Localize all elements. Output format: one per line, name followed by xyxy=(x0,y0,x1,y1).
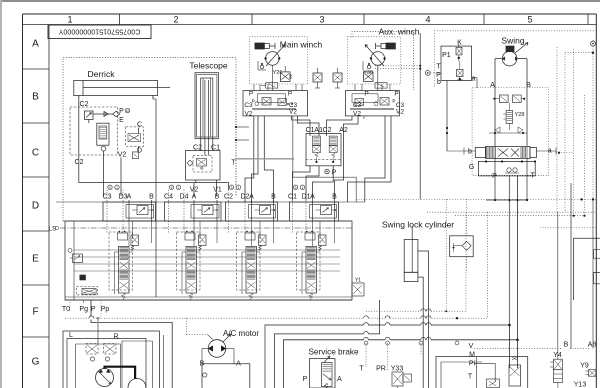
svg-text:V2: V2 xyxy=(245,110,253,117)
svg-text:Swing: Swing xyxy=(501,36,524,46)
pump main circle xyxy=(96,369,114,387)
label Telescope xyxy=(189,61,228,71)
mw tank gray line xyxy=(236,116,356,202)
svg-text:D4: D4 xyxy=(180,194,189,201)
svg-text:C2: C2 xyxy=(323,127,332,134)
svg-text:A: A xyxy=(310,194,315,201)
label B br xyxy=(564,342,569,349)
winch shuttle valve box xyxy=(306,134,341,166)
svg-text:P1: P1 xyxy=(442,52,451,59)
port risers C1 xyxy=(293,190,335,246)
svg-text:T: T xyxy=(530,173,535,180)
aux winch brake cylinder xyxy=(376,43,396,49)
top interconnect dots xyxy=(235,126,249,141)
svg-text:T: T xyxy=(436,63,441,70)
svg-text:C2: C2 xyxy=(224,194,233,201)
pump solenoid left xyxy=(86,344,98,362)
pump bold line xyxy=(105,367,136,379)
label P pump xyxy=(91,300,172,388)
label C2 derrick top xyxy=(80,101,89,108)
label A8 br xyxy=(588,342,597,349)
svg-text:C3: C3 xyxy=(244,102,253,109)
svg-text:Y1: Y1 xyxy=(355,278,361,284)
title block box xyxy=(48,25,151,39)
ac motor circle xyxy=(208,334,231,357)
label V2 derrick xyxy=(118,152,127,159)
label a p1 xyxy=(472,76,476,83)
svg-text:C: C xyxy=(32,148,39,159)
label Swing lock cylinder xyxy=(382,219,454,229)
label P1 xyxy=(442,52,451,59)
circled ports C2/D2 xyxy=(229,185,240,190)
label a swing xyxy=(537,148,574,155)
label Derrick xyxy=(88,69,116,79)
row divider xyxy=(23,336,50,338)
label A ac xyxy=(236,361,241,368)
svg-text:V1: V1 xyxy=(213,186,222,193)
Y33 valve xyxy=(392,372,412,388)
manifold unloader xyxy=(76,275,97,295)
manifold Y1 valve xyxy=(352,278,364,297)
label b swing xyxy=(464,148,475,156)
label T p1 xyxy=(436,63,441,70)
label P sb xyxy=(303,376,308,383)
port relief C3 xyxy=(132,206,153,215)
svg-text:9: 9 xyxy=(231,186,233,190)
svg-text:V2: V2 xyxy=(396,108,404,115)
pilot port symbol P xyxy=(325,169,337,176)
label P mw-right xyxy=(288,91,292,98)
label V2 mw-left xyxy=(245,110,253,117)
svg-text:T: T xyxy=(359,366,364,373)
svg-text:B: B xyxy=(149,194,154,201)
ac motor box xyxy=(202,349,250,388)
label A C2 xyxy=(249,194,254,201)
label V2 col xyxy=(190,186,199,193)
label C3 mw-left xyxy=(244,102,253,109)
svg-text:9: 9 xyxy=(171,186,173,190)
label A1 riser xyxy=(314,127,323,134)
label Aux. winch xyxy=(378,26,419,36)
svg-text:P: P xyxy=(364,91,368,98)
aux winch check valves xyxy=(363,61,371,70)
valve section 2 xyxy=(177,221,207,300)
mid horizontal k xyxy=(447,150,464,151)
svg-text:C2: C2 xyxy=(80,101,89,108)
valve section 1 xyxy=(109,221,139,300)
port relief C1 xyxy=(316,206,337,215)
svg-text:B: B xyxy=(32,92,39,103)
label PR sb xyxy=(376,366,386,373)
svg-text:B: B xyxy=(564,342,569,349)
br small glyph xyxy=(487,379,500,388)
valve section 4 xyxy=(297,221,327,300)
label C3 mw-right xyxy=(289,102,298,109)
svg-text:A: A xyxy=(236,361,241,368)
svg-text:B: B xyxy=(332,194,337,201)
label V2 aw-right xyxy=(396,108,404,115)
right dashed v3 xyxy=(583,95,585,217)
derrick line C2 down xyxy=(79,96,229,191)
svg-text:10: 10 xyxy=(126,109,130,113)
column dividers xyxy=(120,14,589,25)
label Swing xyxy=(501,36,524,46)
aux winch control box xyxy=(345,91,399,116)
K valve xyxy=(456,44,462,61)
shuttle outlet lines xyxy=(293,150,344,200)
label Y33 sb xyxy=(391,366,404,373)
derrick check to P xyxy=(93,111,120,117)
row divider xyxy=(23,284,50,286)
svg-text:A: A xyxy=(127,194,132,201)
swing T return line xyxy=(284,176,519,388)
label C3 aw-right xyxy=(396,102,405,109)
svg-text:Pi: Pi xyxy=(469,361,476,368)
label Pi br xyxy=(469,361,476,368)
svg-text:1: 1 xyxy=(238,186,240,190)
row letter D xyxy=(32,201,39,212)
svg-text:Y30: Y30 xyxy=(363,70,373,76)
svg-text:G: G xyxy=(32,357,40,368)
br valve xyxy=(509,357,521,386)
main winch check valves xyxy=(258,61,266,70)
ac motor dotted feed xyxy=(187,318,214,339)
svg-text:Aux. winch: Aux. winch xyxy=(378,26,419,36)
label G xyxy=(469,164,474,171)
label Service brake xyxy=(308,347,359,356)
swing outer dotted enclosure xyxy=(434,31,596,217)
svg-text:V2: V2 xyxy=(289,108,297,115)
main winch brake cylinder xyxy=(255,43,275,49)
svg-text:C4: C4 xyxy=(164,194,173,201)
label B C3 xyxy=(149,194,154,201)
svg-text:C007557015100000000Y: C007557015100000000Y xyxy=(58,28,140,37)
label V2 mw-right xyxy=(289,108,297,115)
svg-text:Y9: Y9 xyxy=(580,363,589,370)
row divider xyxy=(23,230,50,232)
svg-text:Telescope: Telescope xyxy=(189,61,228,71)
pump inner right box xyxy=(122,335,164,388)
column number 4 xyxy=(425,15,430,25)
label T sb xyxy=(359,366,364,373)
column number 3 xyxy=(319,15,324,25)
label C xyxy=(137,122,142,129)
label b p1 xyxy=(437,79,441,86)
svg-text:1: 1 xyxy=(67,15,72,25)
derrick aux dashed box xyxy=(126,127,144,147)
label P p1 xyxy=(436,72,441,79)
label A sb xyxy=(337,376,342,383)
port box C4 xyxy=(165,202,222,221)
label Y30 xyxy=(363,66,378,81)
manifold T return elbow xyxy=(274,300,379,388)
mw spool right xyxy=(278,99,293,106)
pilot solenoid valve right xyxy=(333,68,342,88)
pilot check box xyxy=(450,199,474,272)
svg-text:G: G xyxy=(469,164,474,171)
right bracket box a xyxy=(594,250,600,259)
manifold top line xyxy=(63,220,352,222)
column number 1 xyxy=(67,15,72,25)
label Pp xyxy=(101,300,110,318)
br unit box xyxy=(436,357,528,388)
svg-text:b: b xyxy=(468,149,472,156)
aux winch counterbalance xyxy=(375,83,387,88)
right bus dotted b xyxy=(455,215,585,217)
BA8 dash line xyxy=(474,348,590,350)
sb dashed drops xyxy=(364,341,459,370)
svg-text:M: M xyxy=(469,352,475,359)
main winch control box xyxy=(243,91,308,116)
svg-text:B: B xyxy=(271,194,276,201)
circled ports C4/D4 xyxy=(169,185,180,190)
circled ports C3/D3 xyxy=(108,185,119,190)
label C4 xyxy=(164,194,173,201)
manifold compensator xyxy=(68,249,83,263)
label M br xyxy=(469,352,475,359)
port risers C4 xyxy=(169,190,218,246)
svg-text:C: C xyxy=(137,122,142,129)
label Y9 xyxy=(580,363,589,370)
swing bottom joins xyxy=(486,158,528,201)
svg-text:A: A xyxy=(337,376,342,383)
derrick-telescope dotted enclosure xyxy=(63,58,236,222)
svg-text:D: D xyxy=(32,201,39,212)
label B swing xyxy=(526,82,531,89)
derrick cylinder xyxy=(74,81,170,100)
aw spool right xyxy=(374,98,395,106)
derrick line down a xyxy=(103,151,105,196)
svg-text:3: 3 xyxy=(319,15,324,25)
svg-text:Y28: Y28 xyxy=(515,112,525,118)
svg-text:C3: C3 xyxy=(103,194,112,201)
row letter E xyxy=(32,254,39,265)
label V1 col xyxy=(213,186,222,193)
pump second circle xyxy=(128,379,146,388)
svg-text:Pp: Pp xyxy=(101,306,110,313)
label B C4 xyxy=(215,194,220,201)
right bracket box b xyxy=(594,272,600,283)
label A2 riser xyxy=(339,127,348,134)
aux winch motor xyxy=(365,45,386,91)
swing check row xyxy=(489,127,527,134)
aw spool left xyxy=(355,99,364,106)
label Y13 xyxy=(574,382,587,388)
service brake box xyxy=(310,359,336,388)
label A/C motor xyxy=(223,329,259,338)
label C2 telescope xyxy=(193,144,202,151)
label P aw-left xyxy=(364,91,368,98)
pump solenoid right xyxy=(104,344,116,362)
wire crossover hops xyxy=(89,309,431,341)
br vertical feeds xyxy=(558,183,593,359)
svg-text:F: F xyxy=(32,307,38,318)
label T mid xyxy=(231,111,236,196)
port risers C2 xyxy=(229,190,274,246)
pilot dotted pair to P1 xyxy=(375,66,420,69)
label T0 xyxy=(62,302,70,313)
svg-text:1: 1 xyxy=(178,186,180,190)
row divider xyxy=(23,176,50,178)
dotted corner a xyxy=(366,212,466,311)
swing relief pair xyxy=(493,95,525,103)
main winch counterbalance xyxy=(261,83,278,88)
label Y26 xyxy=(273,66,292,81)
svg-text:Swing lock cylinder: Swing lock cylinder xyxy=(382,219,454,229)
derrick drain glyph xyxy=(132,152,138,159)
port risers C3 xyxy=(107,190,152,246)
P1 box xyxy=(441,46,472,80)
telescope valve box xyxy=(186,151,221,181)
svg-text:T: T xyxy=(468,374,473,381)
shuttle spool left xyxy=(313,136,321,162)
port symbol p1 xyxy=(425,71,430,76)
port relief C2 xyxy=(255,206,276,215)
svg-text:P: P xyxy=(91,306,96,313)
swing Y28 valve xyxy=(503,103,512,130)
svg-text:C1: C1 xyxy=(306,127,315,134)
row letter G xyxy=(32,357,40,368)
svg-text:L: L xyxy=(69,332,73,339)
svg-text:B: B xyxy=(215,194,220,201)
right dotted bus low xyxy=(540,227,596,229)
svg-text:T: T xyxy=(231,160,236,167)
dotted bus main xyxy=(65,212,488,319)
label D4 xyxy=(180,194,189,201)
svg-text:C3: C3 xyxy=(353,102,362,109)
aux winch outer dotted enclosure xyxy=(352,32,414,91)
derrick line down b xyxy=(120,158,122,197)
label L pump xyxy=(69,332,73,339)
shuttle spool right xyxy=(329,136,337,162)
pilot bus line xyxy=(56,201,365,203)
svg-text:Y33: Y33 xyxy=(391,366,404,373)
svg-text:E: E xyxy=(32,254,39,265)
svg-text:A2: A2 xyxy=(339,127,348,134)
winch feed verticals xyxy=(254,84,390,91)
dotted drop 446 xyxy=(445,199,447,312)
derrick rod port line xyxy=(153,96,156,298)
svg-text:K: K xyxy=(457,40,462,47)
label B C1 xyxy=(332,194,337,201)
label D xyxy=(137,148,142,155)
right bus dots xyxy=(580,198,594,200)
svg-text:A: A xyxy=(192,194,197,201)
Y4 valve xyxy=(550,359,562,388)
svg-text:D: D xyxy=(137,148,142,155)
pump gray feed xyxy=(97,317,100,344)
aux winch dotted box xyxy=(348,37,401,84)
label A C1 xyxy=(310,194,315,201)
svg-text:A: A xyxy=(32,39,39,50)
aw drop lines xyxy=(327,116,392,202)
label T swing xyxy=(530,173,535,180)
derrick pilot valve xyxy=(85,111,94,123)
svg-text:A: A xyxy=(490,82,495,89)
svg-text:5: 5 xyxy=(527,15,532,25)
port relief C4 xyxy=(197,206,218,215)
circled ports C1/D1 xyxy=(293,185,304,190)
svg-text:P: P xyxy=(303,376,308,383)
svg-text:A8: A8 xyxy=(588,342,597,349)
right dash h xyxy=(565,52,593,54)
swing lock port line xyxy=(418,277,423,388)
svg-text:2: 2 xyxy=(173,15,178,25)
long v aux right xyxy=(419,33,421,199)
port box C3 xyxy=(103,202,156,221)
port symbol top right xyxy=(591,40,596,46)
main winch motor xyxy=(264,45,285,91)
row letter F xyxy=(32,307,38,318)
mw drop lines xyxy=(245,116,319,202)
svg-text:Y26: Y26 xyxy=(273,70,283,76)
swing block dotted box xyxy=(472,88,549,176)
svg-text:V: V xyxy=(469,343,474,350)
valve section 3 xyxy=(237,221,267,300)
right corner box xyxy=(574,238,600,300)
pump unit outer box xyxy=(63,331,159,388)
svg-text:B: B xyxy=(526,82,531,89)
label C2 derrick bottom xyxy=(75,159,84,166)
label A C3 xyxy=(127,194,132,201)
svg-text:V2: V2 xyxy=(190,186,199,193)
port P label xyxy=(119,108,130,115)
row letter C xyxy=(32,148,39,159)
P1 inner valve xyxy=(457,61,464,80)
telescope cylinder xyxy=(195,73,219,156)
svg-text:E: E xyxy=(119,117,124,124)
svg-text:R: R xyxy=(113,333,118,340)
mw spool left xyxy=(253,98,272,106)
label Main winch xyxy=(280,40,323,50)
row divider xyxy=(23,68,50,70)
svg-text:V2: V2 xyxy=(118,152,127,159)
row letter B xyxy=(32,92,39,103)
label A C4 xyxy=(192,194,197,201)
svg-text:P: P xyxy=(288,91,292,98)
label C2 xyxy=(224,194,233,201)
swing shuttle xyxy=(505,168,519,173)
label B ac xyxy=(200,361,205,368)
svg-text:PR: PR xyxy=(376,366,386,373)
svg-text:Pg: Pg xyxy=(79,306,88,313)
svg-text:9: 9 xyxy=(295,186,297,190)
row letter A xyxy=(32,39,39,50)
telescope line V1 xyxy=(215,180,217,196)
svg-text:P: P xyxy=(119,108,124,115)
p1 pilot dotted line xyxy=(430,72,441,74)
label P mw-left xyxy=(249,91,253,98)
label V2 aw-left xyxy=(353,110,361,117)
column number 5 xyxy=(527,15,532,25)
right dashed v4 xyxy=(592,46,594,199)
swing motor lines xyxy=(495,59,527,147)
swing a line xyxy=(472,78,477,88)
label C2 riser xyxy=(323,127,332,134)
label C1 riser xyxy=(306,127,315,134)
label B C2 xyxy=(271,194,276,201)
pilot solenoid valve left xyxy=(313,68,322,88)
svg-text:Derrick: Derrick xyxy=(88,69,116,79)
label D1 xyxy=(302,194,311,201)
manifold bottom lines xyxy=(65,297,352,300)
derrick line down c xyxy=(137,128,139,152)
swing PT box xyxy=(478,160,536,176)
svg-text:V2: V2 xyxy=(353,110,361,117)
row divider xyxy=(23,122,50,124)
LS line xyxy=(49,226,352,233)
label V br xyxy=(469,343,474,350)
